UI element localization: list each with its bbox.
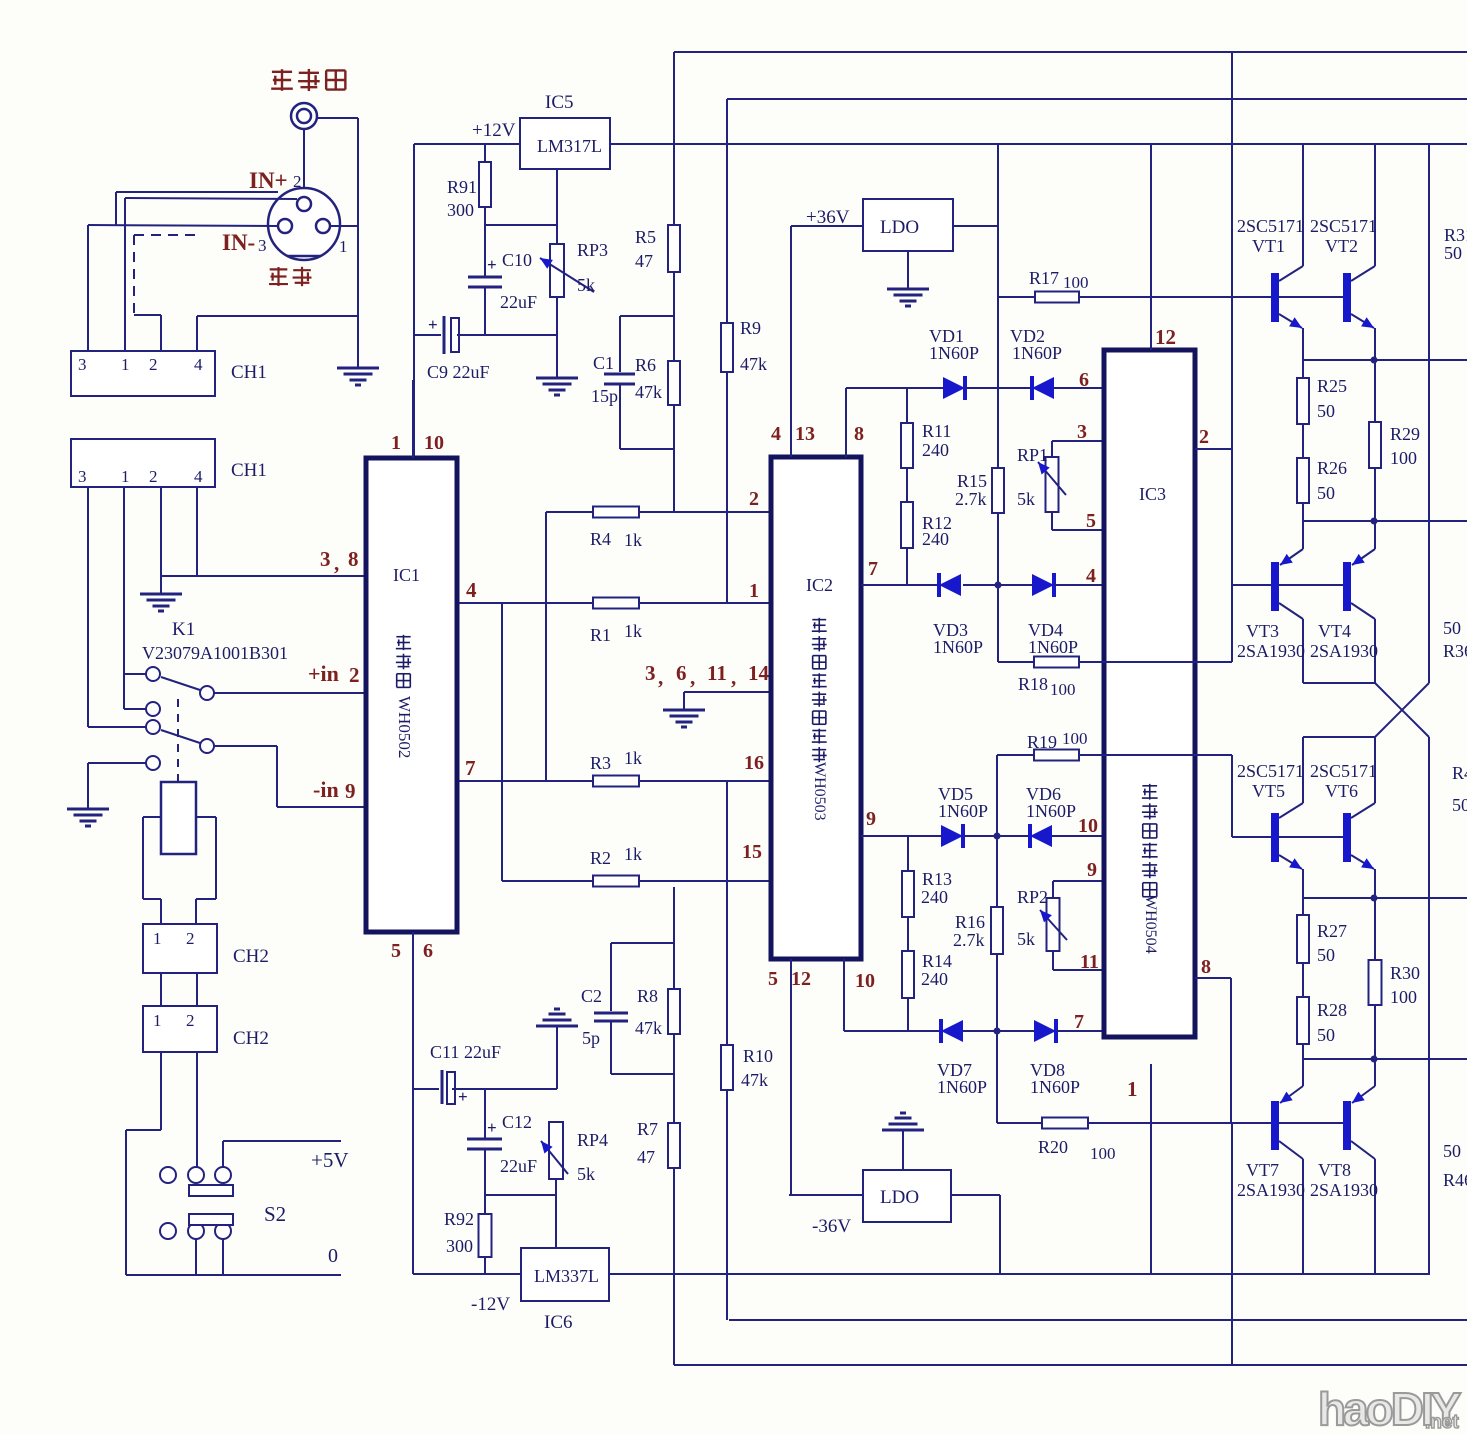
svg-text:C2: C2 (581, 986, 602, 1006)
svg-text:R92: R92 (444, 1209, 474, 1229)
svg-text:,: , (690, 665, 695, 689)
svg-text:1N60P: 1N60P (1030, 1077, 1080, 1097)
svg-text:50: 50 (1443, 618, 1461, 638)
svg-text:R10: R10 (743, 1046, 773, 1066)
svg-text:R11: R11 (922, 421, 951, 441)
svg-text:2SC5171: 2SC5171 (1310, 761, 1377, 781)
svg-text:0: 0 (328, 1245, 338, 1267)
svg-text:11: 11 (1080, 951, 1099, 973)
svg-text:10: 10 (424, 432, 444, 454)
svg-text:R36: R36 (1443, 641, 1467, 661)
svg-text:C9 22uF: C9 22uF (427, 362, 490, 382)
svg-text:+: + (487, 1118, 497, 1137)
svg-text:300: 300 (446, 1236, 473, 1256)
svg-text:S2: S2 (264, 1202, 286, 1226)
svg-text:LM337L: LM337L (534, 1266, 599, 1286)
svg-text:VT5: VT5 (1252, 781, 1285, 801)
svg-text:1: 1 (1127, 1077, 1138, 1101)
svg-text:R31: R31 (1444, 225, 1467, 245)
svg-text:,: , (334, 551, 339, 575)
svg-text:R13: R13 (922, 869, 952, 889)
svg-text:50: 50 (1317, 1025, 1335, 1045)
svg-text:R20: R20 (1038, 1137, 1068, 1157)
svg-text:V23079A1001B301: V23079A1001B301 (142, 643, 288, 663)
svg-text:LDO: LDO (880, 1187, 919, 1208)
svg-text:R28: R28 (1317, 1000, 1347, 1020)
svg-text:K1: K1 (172, 619, 195, 640)
svg-text:1N60P: 1N60P (1026, 801, 1076, 821)
svg-text:50: 50 (1317, 945, 1335, 965)
svg-text:VT3: VT3 (1246, 621, 1279, 641)
svg-text:-12V: -12V (471, 1294, 510, 1315)
svg-text:R8: R8 (637, 986, 658, 1006)
svg-text:1N60P: 1N60P (929, 343, 979, 363)
svg-text:3: 3 (320, 547, 331, 571)
svg-text:+in: +in (308, 661, 339, 686)
svg-text:240: 240 (921, 969, 948, 989)
svg-text:IC6: IC6 (544, 1312, 573, 1333)
svg-text:R17: R17 (1029, 268, 1059, 288)
svg-text:WH0502: WH0502 (395, 696, 414, 758)
svg-text:2SA1930: 2SA1930 (1237, 1180, 1305, 1200)
svg-text:VT1: VT1 (1252, 236, 1285, 256)
svg-text:R5: R5 (635, 227, 656, 247)
svg-text:47k: 47k (635, 382, 662, 402)
svg-text:VT8: VT8 (1318, 1160, 1351, 1180)
svg-text:R14: R14 (922, 951, 952, 971)
svg-text:IN+: IN+ (249, 168, 288, 193)
svg-text:1k: 1k (624, 530, 642, 550)
svg-text:5k: 5k (577, 275, 595, 295)
svg-text:2: 2 (293, 172, 302, 191)
svg-text:4: 4 (1086, 565, 1096, 587)
svg-text:RP2: RP2 (1017, 887, 1048, 907)
svg-text:12: 12 (791, 968, 811, 990)
svg-text:C11: C11 (430, 1042, 459, 1062)
svg-text:1N60P: 1N60P (1012, 343, 1062, 363)
svg-text:IN-: IN- (222, 230, 255, 255)
svg-text:100: 100 (1050, 680, 1076, 699)
svg-text:2: 2 (186, 1011, 195, 1030)
svg-text:100: 100 (1390, 987, 1417, 1007)
svg-text:300: 300 (447, 200, 474, 220)
svg-text:-in: -in (313, 777, 339, 802)
svg-text:+5V: +5V (311, 1148, 349, 1172)
svg-text:R46: R46 (1443, 1170, 1467, 1190)
svg-text:47: 47 (637, 1147, 655, 1167)
svg-text:14: 14 (748, 661, 770, 685)
svg-text:1k: 1k (624, 844, 642, 864)
svg-text:4: 4 (771, 423, 781, 445)
svg-text:R6: R6 (635, 355, 656, 375)
svg-text:R15: R15 (957, 471, 987, 491)
svg-text:2SC5171: 2SC5171 (1237, 761, 1304, 781)
svg-text:IC2: IC2 (806, 575, 833, 595)
svg-text:3: 3 (78, 467, 87, 486)
svg-text:9: 9 (866, 808, 876, 830)
svg-text:R91: R91 (447, 177, 477, 197)
svg-text:6: 6 (423, 940, 433, 962)
svg-text:2.7k: 2.7k (953, 930, 985, 950)
svg-text:9: 9 (1087, 859, 1097, 881)
svg-text:-36V: -36V (812, 1216, 851, 1237)
svg-text:6: 6 (676, 661, 687, 685)
svg-text:5k: 5k (1017, 929, 1035, 949)
svg-text:5: 5 (768, 968, 778, 990)
svg-text:2: 2 (149, 467, 158, 486)
svg-text:VT4: VT4 (1318, 621, 1351, 641)
svg-text:5k: 5k (577, 1164, 595, 1184)
svg-text:3: 3 (78, 355, 87, 374)
svg-text:47k: 47k (740, 354, 767, 374)
svg-text:4: 4 (194, 467, 203, 486)
svg-text:100: 100 (1090, 1144, 1116, 1163)
svg-text:2: 2 (186, 929, 195, 948)
svg-text:5p: 5p (582, 1028, 600, 1048)
svg-text:1N60P: 1N60P (937, 1077, 987, 1097)
svg-text:,: , (658, 665, 663, 689)
svg-text:10: 10 (855, 970, 875, 992)
svg-text:1: 1 (339, 237, 348, 256)
svg-text:+12V: +12V (472, 120, 516, 141)
svg-text:CH1: CH1 (231, 460, 267, 481)
svg-text:1N60P: 1N60P (933, 637, 983, 657)
svg-text:1k: 1k (624, 748, 642, 768)
svg-text:50: 50 (1317, 401, 1335, 421)
svg-text:IC3: IC3 (1139, 484, 1166, 504)
svg-text:1N60P: 1N60P (1028, 637, 1078, 657)
svg-text:R1: R1 (590, 625, 611, 645)
svg-text:CH1: CH1 (231, 362, 267, 383)
svg-text:CH2: CH2 (233, 1028, 269, 1049)
svg-text:RP3: RP3 (577, 240, 608, 260)
svg-text:47k: 47k (741, 1070, 768, 1090)
svg-text:+36V: +36V (806, 207, 850, 228)
svg-text:R9: R9 (740, 318, 761, 338)
svg-text:RP1: RP1 (1017, 445, 1048, 465)
svg-text:240: 240 (922, 529, 949, 549)
svg-text:1: 1 (153, 929, 162, 948)
svg-text:RP4: RP4 (577, 1130, 608, 1150)
svg-text:10: 10 (1078, 815, 1098, 837)
svg-text:1: 1 (391, 432, 401, 454)
svg-text:2: 2 (749, 488, 759, 510)
svg-text:R19: R19 (1027, 732, 1057, 752)
svg-text:100: 100 (1062, 729, 1088, 748)
svg-text:240: 240 (922, 440, 949, 460)
svg-text:VT2: VT2 (1325, 236, 1358, 256)
svg-text:16: 16 (744, 752, 764, 774)
svg-text:47k: 47k (635, 1018, 662, 1038)
svg-text:LDO: LDO (880, 217, 919, 238)
svg-text:C1: C1 (593, 353, 614, 373)
svg-text:R3: R3 (590, 753, 611, 773)
svg-text:50: 50 (1444, 243, 1462, 263)
svg-text:C10: C10 (502, 250, 532, 270)
svg-text:22uF: 22uF (464, 1042, 501, 1062)
svg-text:15p: 15p (591, 386, 618, 406)
svg-text:5: 5 (1086, 510, 1096, 532)
svg-text:3: 3 (258, 236, 267, 255)
svg-text:.net: .net (1425, 1412, 1459, 1429)
svg-text:2SA1930: 2SA1930 (1237, 641, 1305, 661)
svg-text:+: + (487, 255, 497, 274)
svg-text:1: 1 (153, 1011, 162, 1030)
svg-text:2: 2 (149, 355, 158, 374)
svg-text:2SA1930: 2SA1930 (1310, 1180, 1378, 1200)
svg-text:R26: R26 (1317, 458, 1347, 478)
svg-text:11: 11 (707, 661, 727, 685)
svg-text:3: 3 (1077, 421, 1087, 443)
svg-text:100: 100 (1390, 448, 1417, 468)
svg-text:240: 240 (921, 887, 948, 907)
svg-text:2: 2 (1199, 426, 1209, 448)
svg-text:47: 47 (635, 251, 653, 271)
svg-text:7: 7 (868, 558, 878, 580)
svg-text:R4: R4 (590, 529, 611, 549)
svg-text:CH2: CH2 (233, 946, 269, 967)
svg-text:7: 7 (1074, 1011, 1084, 1033)
svg-text:15: 15 (742, 841, 762, 863)
svg-text:1: 1 (121, 467, 130, 486)
svg-text:3: 3 (645, 661, 656, 685)
svg-text:9: 9 (345, 779, 356, 803)
svg-text:7: 7 (465, 756, 476, 780)
svg-text:100: 100 (1063, 273, 1089, 292)
svg-text:12: 12 (1155, 325, 1176, 349)
svg-text:WH0504: WH0504 (1142, 895, 1159, 954)
svg-text:LM317L: LM317L (537, 136, 602, 156)
svg-text:13: 13 (795, 423, 815, 445)
svg-text:2SA1930: 2SA1930 (1310, 641, 1378, 661)
svg-text:22uF: 22uF (500, 292, 537, 312)
svg-text:1: 1 (749, 580, 759, 602)
svg-text:2: 2 (349, 663, 360, 687)
svg-text:8: 8 (348, 547, 359, 571)
svg-text:IC1: IC1 (393, 565, 420, 585)
svg-text:8: 8 (854, 423, 864, 445)
svg-text:R29: R29 (1390, 424, 1420, 444)
svg-text:R7: R7 (637, 1119, 658, 1139)
svg-text:2SC5171: 2SC5171 (1237, 216, 1304, 236)
svg-text:50: 50 (1452, 795, 1467, 815)
svg-text:+: + (428, 315, 438, 334)
svg-text:IC5: IC5 (545, 92, 574, 113)
svg-text:2SC5171: 2SC5171 (1310, 216, 1377, 236)
svg-text:R4: R4 (1452, 763, 1467, 783)
svg-text:22uF: 22uF (500, 1156, 537, 1176)
svg-text:WH0503: WH0503 (811, 762, 828, 821)
svg-text:5: 5 (391, 940, 401, 962)
svg-text:6: 6 (1079, 369, 1089, 391)
svg-text:R16: R16 (955, 912, 985, 932)
svg-text:R27: R27 (1317, 921, 1347, 941)
svg-text:R2: R2 (590, 848, 611, 868)
svg-text:1N60P: 1N60P (938, 801, 988, 821)
svg-text:VT7: VT7 (1246, 1160, 1279, 1180)
svg-text:2.7k: 2.7k (955, 489, 987, 509)
svg-text:1k: 1k (624, 621, 642, 641)
svg-text:R18: R18 (1018, 674, 1048, 694)
svg-text:R30: R30 (1390, 963, 1420, 983)
svg-text:5k: 5k (1017, 489, 1035, 509)
svg-text:50: 50 (1443, 1141, 1461, 1161)
svg-text:R25: R25 (1317, 376, 1347, 396)
svg-text:,: , (731, 665, 736, 689)
svg-text:C12: C12 (502, 1112, 532, 1132)
svg-text:4: 4 (194, 355, 203, 374)
svg-text:VT6: VT6 (1325, 781, 1358, 801)
svg-text:4: 4 (466, 578, 477, 602)
svg-text:8: 8 (1201, 956, 1211, 978)
svg-text:50: 50 (1317, 483, 1335, 503)
svg-text:1: 1 (121, 355, 130, 374)
